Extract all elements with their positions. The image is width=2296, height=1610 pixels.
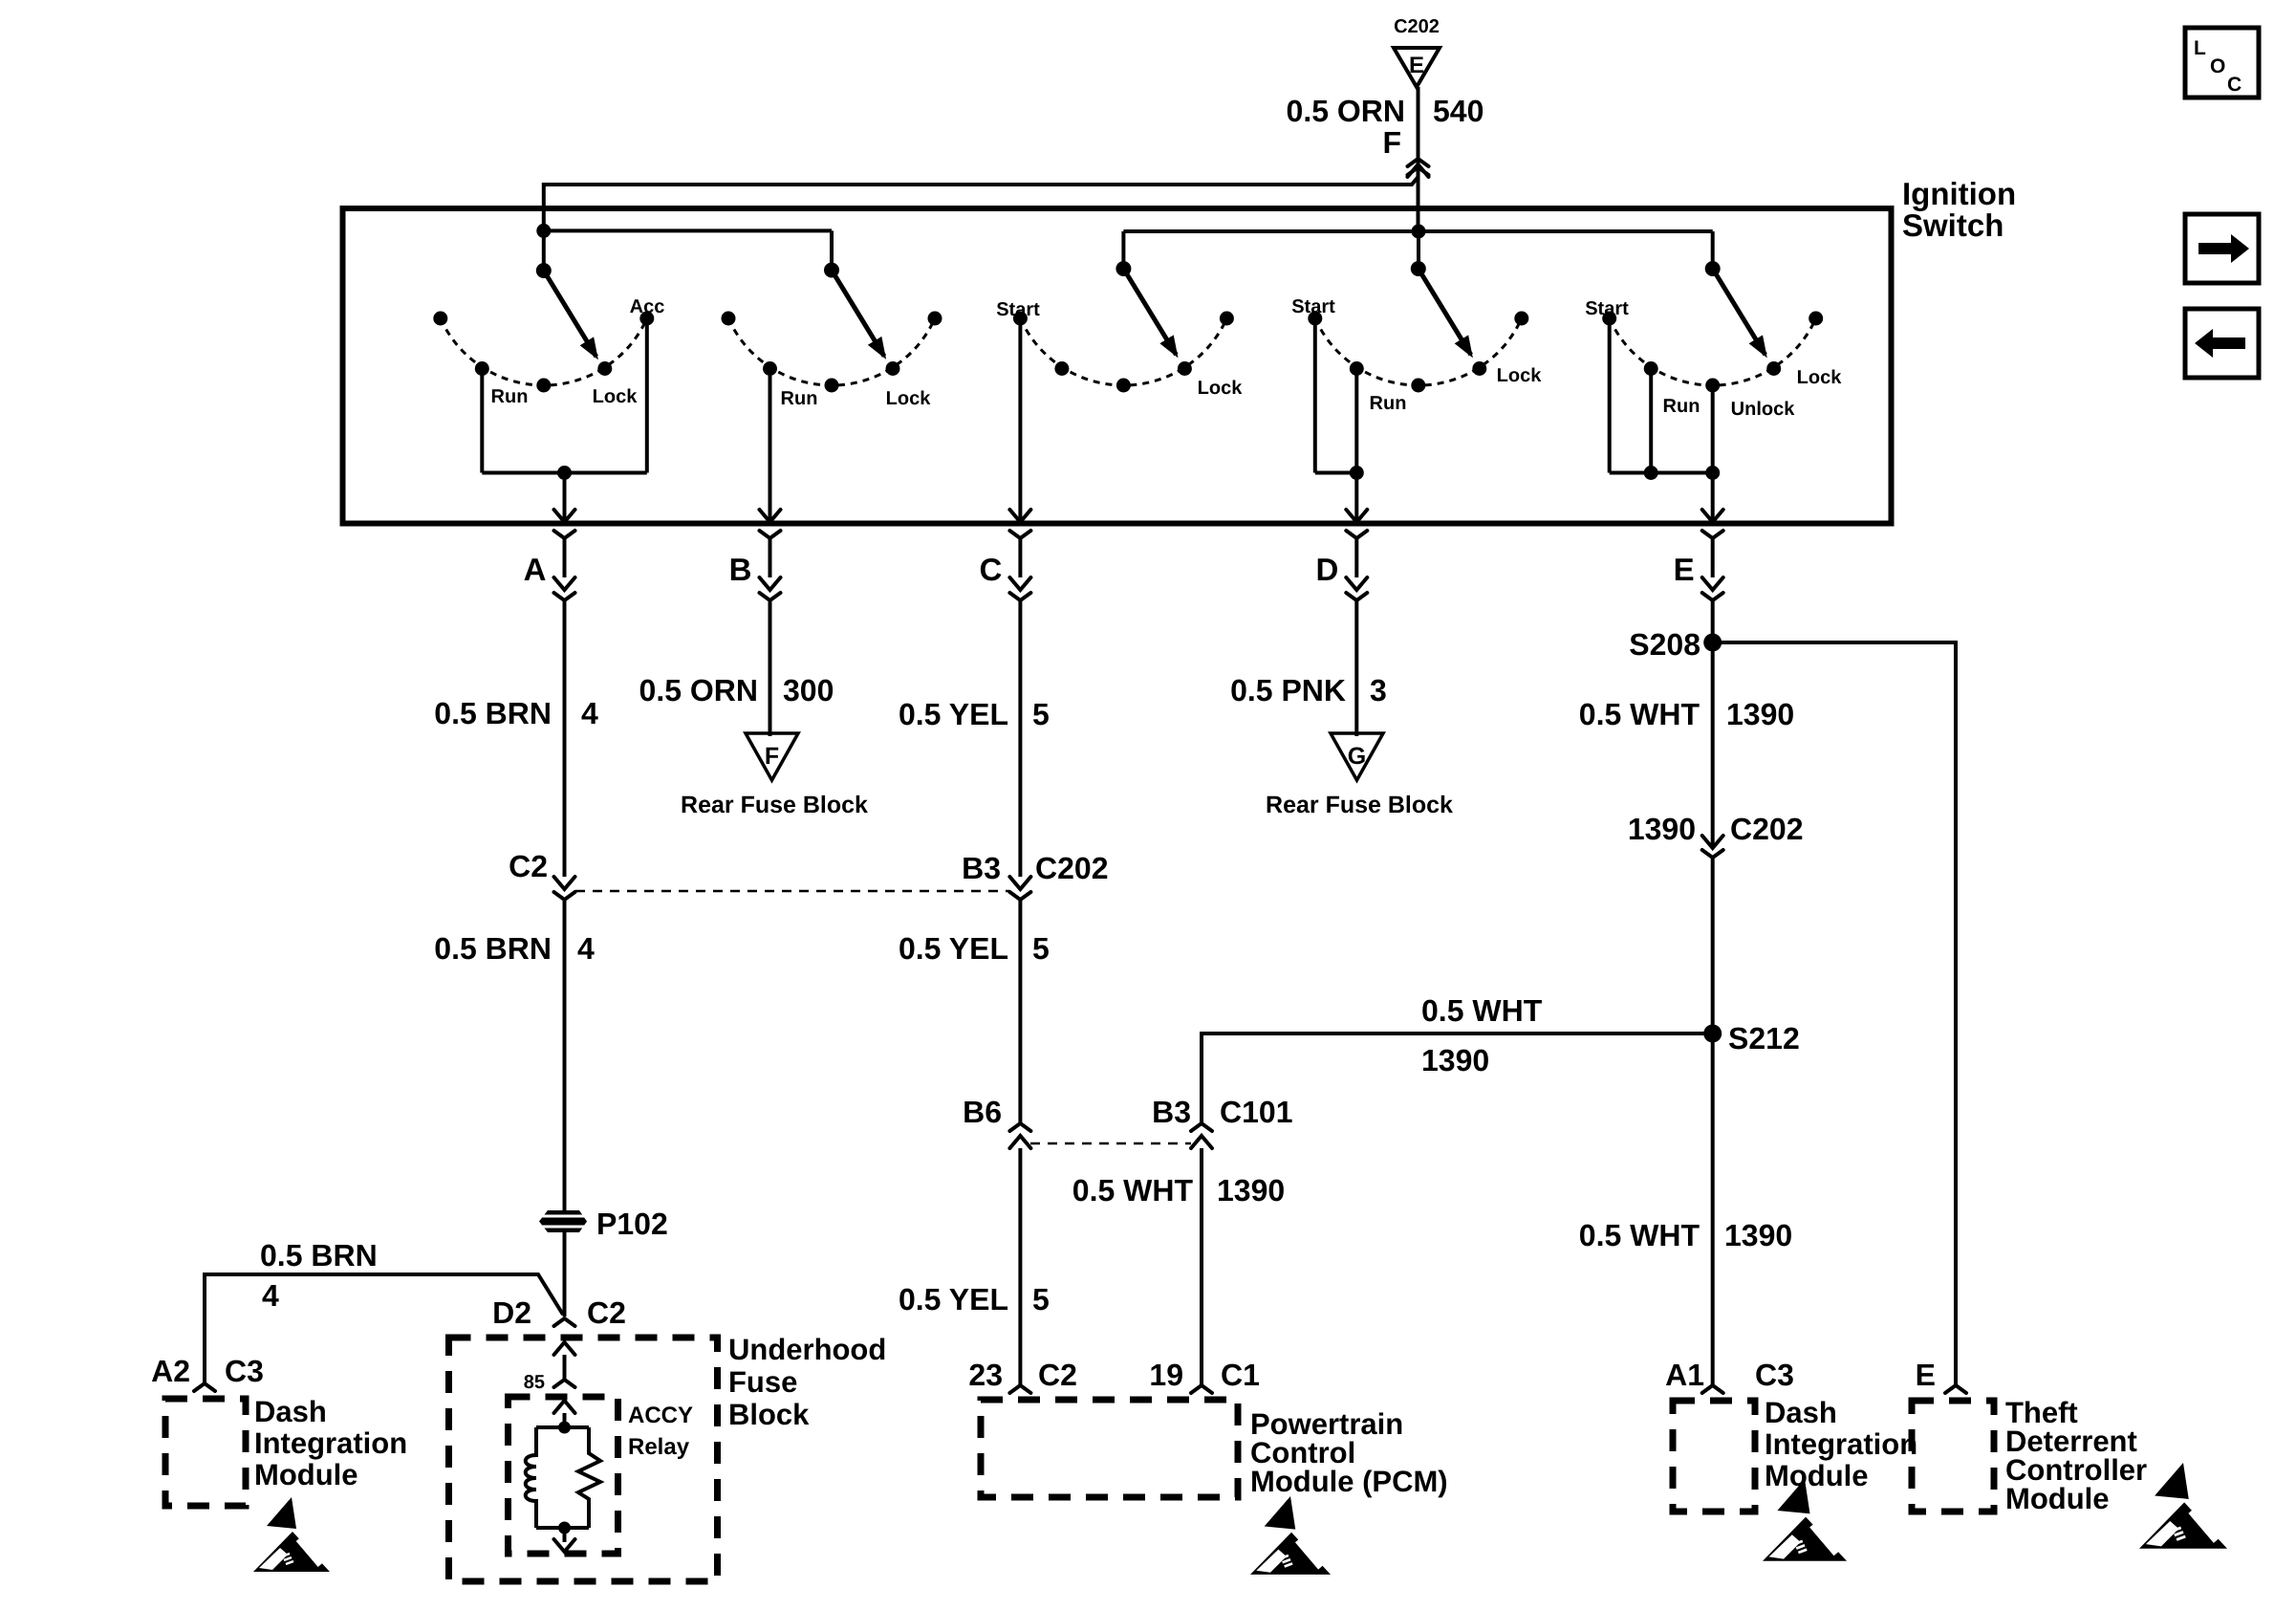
switch E (Start/Run/Unlock/Lock): pivot node	[1705, 261, 1721, 276]
ignition switch box	[343, 208, 1892, 524]
switch A (Acc/Run/Lock): contact arc (dashed)	[441, 318, 647, 385]
ESD symbol (dash integration module right)	[1763, 1479, 1847, 1561]
svg-text:1390: 1390	[1726, 697, 1794, 731]
svg-text:ACCY: ACCY	[628, 1403, 693, 1428]
svg-text:E: E	[1916, 1358, 1936, 1392]
ignition switch pin B: exit connector	[760, 531, 781, 538]
svg-text:A1: A1	[1665, 1358, 1704, 1392]
in-line connector below pin C	[1009, 577, 1030, 590]
wire down to switch E pivot	[1711, 231, 1715, 269]
bus wire inside box: C202 junction to switch C and E pivots	[1123, 229, 1712, 233]
ignition switch pin E: exit connector	[1702, 531, 1723, 538]
svg-text:Unlock: Unlock	[1731, 399, 1796, 420]
svg-text:C1: C1	[1221, 1358, 1260, 1392]
svg-text:Dash: Dash	[1765, 1396, 1837, 1429]
relay parallel network bottom node	[536, 1526, 589, 1530]
svg-text:D2: D2	[492, 1295, 531, 1330]
svg-text:1390: 1390	[1421, 1043, 1489, 1077]
svg-text:Module: Module	[2005, 1482, 2110, 1515]
wire 0.5 WHT 1390 to PCM pin 19	[1200, 1148, 1203, 1384]
in-line connector below pin B	[760, 577, 781, 590]
svg-text:E: E	[1674, 552, 1695, 587]
svg-text:4: 4	[262, 1278, 279, 1313]
relay suppression resistor right branch	[578, 1427, 600, 1528]
svg-text:C202: C202	[1394, 16, 1440, 37]
dashed connector link B6 to B3 C101	[1030, 1142, 1191, 1145]
switch A (Acc/Run/Lock): movable arm with arrow to Lock contact	[544, 271, 596, 357]
svg-text:0.5 WHT: 0.5 WHT	[1579, 697, 1700, 731]
svg-text:Lock: Lock	[1797, 367, 1843, 388]
svg-text:C: C	[980, 552, 1003, 587]
svg-text:B: B	[729, 552, 752, 587]
wire from connector E down into ignition switch	[1417, 87, 1420, 231]
svg-text:1390: 1390	[1628, 812, 1696, 846]
ESD symbol (dash integration module)	[253, 1497, 330, 1572]
powertrain control module box	[981, 1400, 1238, 1497]
svg-text:A: A	[524, 552, 547, 587]
LOC legend box	[2185, 28, 2259, 98]
svg-text:Run: Run	[491, 386, 529, 407]
svg-text:0.5 ORN: 0.5 ORN	[1287, 94, 1405, 128]
wire C: 0.5 YEL 5 to PCM	[1018, 1148, 1022, 1384]
switch C (Start/Lock): contact dots	[1013, 312, 1028, 326]
svg-text:Lock: Lock	[1198, 378, 1244, 399]
branch wire 0.5 BRN 4 to dash integration module	[205, 1274, 563, 1383]
svg-text:300: 300	[783, 673, 834, 707]
svg-text:S208: S208	[1629, 627, 1700, 662]
branch wire from S208 to theft deterrent controller module	[1713, 642, 1956, 1384]
svg-text:85: 85	[524, 1372, 545, 1393]
feed wire above box from switch A/B riser to connector F	[544, 177, 1419, 230]
switch A (Acc/Run/Lock): contact dots	[433, 312, 447, 326]
switch D: output node	[1350, 466, 1364, 480]
node: junction at C202 wire	[1412, 225, 1426, 239]
svg-text:C101: C101	[1220, 1095, 1293, 1129]
dash integration module box (left)	[165, 1399, 246, 1506]
svg-text:A2: A2	[151, 1354, 190, 1388]
switch A (Acc/Run/Lock): pivot node	[536, 263, 552, 278]
svg-text:C202: C202	[1035, 851, 1109, 885]
dash integration module box (right)	[1673, 1401, 1755, 1512]
svg-text:0.5 BRN: 0.5 BRN	[260, 1238, 378, 1273]
svg-text:Dash: Dash	[254, 1395, 327, 1428]
svg-text:0.5 ORN: 0.5 ORN	[639, 673, 758, 707]
switch A: output wire to box edge with arrow	[563, 473, 567, 520]
svg-text:C3: C3	[225, 1354, 264, 1388]
wire D: 0.5 PNK 3 segment	[1354, 600, 1358, 736]
svg-text:L: L	[2194, 37, 2206, 59]
wire E: below C202 to dash integration module	[1711, 858, 1715, 1384]
switch E: joiner wire	[1610, 471, 1713, 475]
svg-text:O: O	[2210, 55, 2225, 77]
svg-text:Run: Run	[1663, 396, 1700, 417]
switch C: output wire from Start contact to box edge with arrow	[1018, 318, 1022, 519]
svg-text:0.5 YEL: 0.5 YEL	[899, 697, 1008, 731]
wire C: 0.5 YEL 5 segment	[1018, 600, 1022, 877]
switch B: output wire from Run contact to box edge with arrow	[769, 369, 772, 520]
svg-text:Module (PCM): Module (PCM)	[1250, 1465, 1448, 1498]
svg-text:Switch: Switch	[1902, 207, 2004, 243]
svg-text:Module: Module	[254, 1458, 358, 1491]
svg-text:0.5 WHT: 0.5 WHT	[1421, 993, 1543, 1028]
svg-text:C2: C2	[1038, 1358, 1077, 1392]
ACCY relay box	[509, 1397, 618, 1554]
previous-page arrow box	[2185, 309, 2259, 378]
svg-text:0.5 WHT: 0.5 WHT	[1579, 1218, 1700, 1252]
wire A: 0.5 BRN 4 segment	[563, 600, 567, 877]
svg-text:Relay: Relay	[628, 1434, 690, 1460]
bus wire inside box: junction to switch A and B pivots	[544, 228, 832, 232]
svg-text:Start: Start	[1585, 298, 1629, 319]
switch E: node at Run join	[1644, 466, 1658, 480]
switch D (Start/Run/Lock): movable arm with arrow to Lock contact	[1419, 269, 1471, 355]
in-line connector below pin D	[1346, 577, 1367, 590]
svg-text:P102: P102	[596, 1207, 668, 1241]
svg-text:B6: B6	[963, 1095, 1002, 1129]
svg-text:23: 23	[968, 1358, 1003, 1392]
ESD symbol (PCM)	[1250, 1496, 1331, 1575]
svg-text:Lock: Lock	[593, 386, 639, 407]
switch B (Run/Lock): contact dots	[722, 312, 736, 326]
grommet P102 on wire A	[539, 1210, 587, 1232]
wire down to switch A pivot	[542, 230, 546, 271]
svg-text:1390: 1390	[1217, 1173, 1285, 1207]
next-page arrow box	[2185, 214, 2259, 283]
pin 85 of underhood fuse block	[554, 1342, 575, 1355]
svg-text:E: E	[1409, 53, 1424, 78]
svg-text:Integration: Integration	[254, 1426, 407, 1460]
wire down to switch D pivot	[1417, 231, 1420, 269]
switch B (Run/Lock): movable arm with arrow to Lock contact	[832, 271, 884, 357]
svg-text:B3: B3	[962, 851, 1001, 885]
connector G triangle (rear fuse block)	[1331, 733, 1383, 780]
svg-text:F: F	[1382, 125, 1401, 160]
svg-text:Run: Run	[781, 388, 818, 409]
relay parallel network top node	[558, 1422, 571, 1434]
svg-text:Ignition: Ignition	[1902, 176, 2016, 211]
svg-text:B3: B3	[1152, 1095, 1191, 1129]
switch D: wire from Run contact down	[1354, 369, 1358, 520]
ignition switch pin A: exit connector	[554, 531, 575, 538]
wire A: down to underhood fuse block	[563, 1232, 567, 1316]
svg-text:C3: C3	[1755, 1358, 1794, 1392]
svg-text:Start: Start	[996, 299, 1040, 320]
wire down to switch C pivot	[1121, 231, 1125, 269]
dashed connector link C2 to C202	[575, 890, 1009, 893]
switch A: joiner wire	[482, 471, 647, 475]
underhood fuse block box	[449, 1338, 718, 1581]
svg-text:Rear Fuse Block: Rear Fuse Block	[1266, 792, 1453, 818]
wire A: 0.5 BRN 4 below C202	[563, 900, 567, 1210]
ESD symbol (TDCM)	[2139, 1463, 2227, 1549]
ignition switch pin D: exit connector	[1346, 531, 1367, 538]
svg-text:Lock: Lock	[1497, 365, 1543, 386]
in-line connector symbol on wire F	[1408, 159, 1429, 166]
svg-text:Start: Start	[1291, 296, 1335, 317]
svg-text:5: 5	[1032, 697, 1050, 731]
splice S212	[1703, 1025, 1722, 1043]
switch B (Run/Lock): pivot node	[824, 263, 839, 278]
svg-text:0.5 BRN: 0.5 BRN	[434, 931, 552, 966]
svg-text:Integration: Integration	[1765, 1427, 1917, 1461]
svg-text:S212: S212	[1728, 1021, 1800, 1055]
connector E triangle (to rear fuse block)	[1394, 48, 1440, 87]
switch D: wire from Start contact down	[1313, 318, 1317, 473]
svg-text:0.5 WHT: 0.5 WHT	[1072, 1173, 1194, 1207]
svg-text:Run: Run	[1370, 393, 1407, 414]
switch E (Start/Run/Unlock/Lock): contact dots	[1602, 312, 1616, 326]
switch E: wire from Run contact down	[1649, 369, 1653, 473]
wire E: 0.5 WHT 1390 segment	[1711, 600, 1715, 848]
switch D (Start/Run/Lock): contact dots	[1308, 312, 1322, 326]
svg-text:Lock: Lock	[886, 388, 932, 409]
svg-text:4: 4	[577, 931, 595, 966]
svg-text:Rear Fuse Block: Rear Fuse Block	[681, 792, 868, 818]
splice S208	[1703, 634, 1722, 652]
switch A: output node	[557, 466, 572, 480]
svg-text:3: 3	[1370, 673, 1387, 707]
svg-text:0.5 YEL: 0.5 YEL	[899, 931, 1008, 966]
node: junction at switch A riser	[536, 224, 551, 238]
switch D: joiner wire	[1315, 471, 1357, 475]
svg-text:Block: Block	[728, 1398, 810, 1431]
svg-text:Fuse: Fuse	[728, 1365, 797, 1399]
switch D (Start/Run/Lock): pivot node	[1411, 261, 1426, 276]
svg-text:Module: Module	[1765, 1459, 1869, 1492]
switch E: wire from Unlock contact down	[1711, 385, 1715, 519]
switch C (Start/Lock): contact arc (dashed)	[1020, 318, 1226, 385]
switch E: wire from Start contact down	[1608, 318, 1612, 473]
svg-text:0.5 BRN: 0.5 BRN	[434, 696, 552, 730]
svg-text:C2: C2	[587, 1295, 626, 1330]
svg-text:Underhood: Underhood	[728, 1333, 886, 1366]
switch E (Start/Run/Unlock/Lock): movable arm with arrow to Lock contact	[1713, 269, 1765, 355]
svg-text:19: 19	[1149, 1358, 1183, 1392]
relay coil input arrow	[554, 1401, 575, 1413]
in-line connector below pin E	[1702, 577, 1723, 590]
svg-text:C: C	[2227, 74, 2242, 96]
switch C (Start/Lock): pivot node	[1116, 261, 1131, 276]
in-line connector below pin A	[554, 577, 575, 590]
switch B (Run/Lock): contact arc (dashed)	[728, 318, 935, 385]
wire from S212 left and down to C101	[1202, 1033, 1713, 1122]
switch D (Start/Run/Lock): contact arc (dashed)	[1315, 318, 1522, 385]
switch C (Start/Lock): movable arm with arrow to Lock contact	[1123, 269, 1176, 355]
connector F triangle (rear fuse block)	[746, 733, 798, 780]
wire B: 0.5 ORN 300 segment	[769, 600, 772, 736]
svg-text:1390: 1390	[1724, 1218, 1792, 1252]
svg-text:C2: C2	[509, 849, 548, 883]
svg-text:D: D	[1315, 552, 1338, 587]
wire C: 0.5 YEL 5 below C202	[1018, 900, 1022, 1122]
svg-text:4: 4	[581, 696, 598, 730]
svg-text:G: G	[1348, 743, 1366, 770]
theft deterrent controller module box	[1912, 1401, 1994, 1512]
switch A: wire from Acc contact down	[645, 318, 649, 473]
svg-text:0.5 YEL: 0.5 YEL	[899, 1282, 1008, 1316]
ignition switch pin C: exit connector	[1009, 531, 1030, 538]
svg-text:0.5 PNK: 0.5 PNK	[1230, 673, 1346, 707]
svg-text:F: F	[765, 743, 779, 770]
switch A: wire from Run contact down	[480, 369, 484, 473]
svg-text:C202: C202	[1730, 812, 1804, 846]
svg-text:540: 540	[1433, 94, 1484, 128]
relay coil (inductor) left branch	[526, 1427, 536, 1528]
switch E (Start/Run/Unlock/Lock): contact arc (dashed)	[1610, 318, 1816, 385]
wire down to switch B pivot	[830, 230, 834, 270]
svg-text:5: 5	[1032, 1282, 1050, 1316]
svg-text:Acc: Acc	[630, 296, 665, 317]
svg-text:5: 5	[1032, 931, 1050, 966]
relay coil output arrow	[563, 1528, 567, 1542]
switch E: output node	[1705, 466, 1720, 480]
